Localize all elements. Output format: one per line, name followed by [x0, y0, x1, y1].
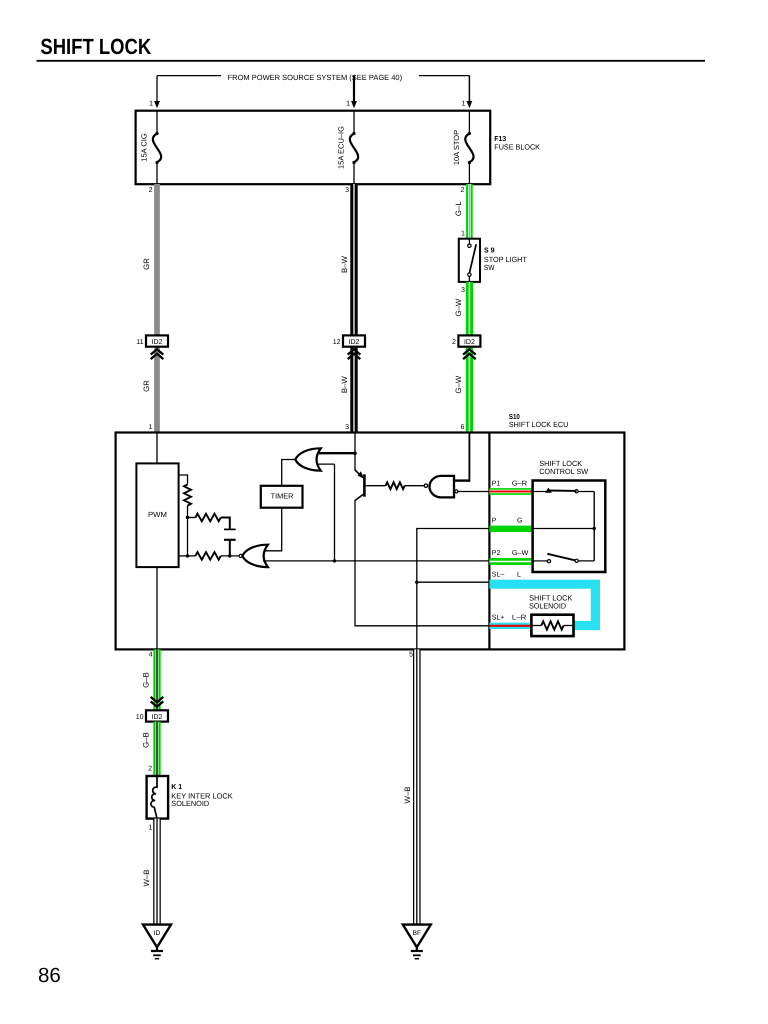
svg-text:11: 11 [136, 339, 143, 346]
svg-text:15A CIG: 15A CIG [140, 133, 149, 162]
svg-text:L: L [517, 571, 521, 578]
svg-text:G–L: G–L [454, 201, 463, 216]
S9 switch contacts and blade [468, 239, 470, 244]
stop light switch S9 box [459, 239, 480, 282]
wire resistor to NAND output [405, 485, 425, 487]
svg-text:86: 86 [38, 964, 61, 987]
wire capacitor to row2 [229, 540, 231, 556]
svg-text:1: 1 [461, 231, 465, 238]
svg-text:12: 12 [333, 339, 341, 346]
svg-text:SW: SW [484, 263, 495, 272]
op-amp gate: OR gate (lower, output to PWM network) [239, 554, 242, 557]
op-amp gate: OR gate (upper, drives TIMER) [295, 448, 321, 470]
wire B-W from ID2 to ECU pin 3 [350, 347, 357, 433]
wire row1 junction to resistor [188, 517, 196, 519]
svg-text:G–W: G–W [454, 375, 463, 393]
wire arrow from power source [156, 76, 158, 103]
control sw common line [533, 528, 595, 530]
svg-text:PWM: PWM [148, 510, 167, 519]
svg-text:TIMER: TIMER [271, 492, 294, 501]
control sw P2 contact [533, 560, 548, 562]
chevron arrows (G-W) [463, 349, 476, 354]
wire SL- row inside ECU [417, 581, 490, 583]
svg-text:S 9: S 9 [484, 246, 495, 255]
resistor (solenoid coil) [531, 625, 541, 627]
svg-text:15A ECU–IG: 15A ECU–IG [337, 126, 346, 169]
svg-text:1: 1 [149, 824, 153, 831]
wire B-W inside ECU [354, 433, 356, 471]
svg-text:6: 6 [460, 424, 464, 431]
key interlock solenoid K1 box [147, 776, 169, 819]
chevron arrows (GR) [151, 349, 164, 354]
resistor (vertical, PWM network) [184, 485, 191, 506]
connector ID2 pin 2 [458, 335, 480, 346]
svg-text:B–W: B–W [340, 255, 349, 273]
svg-text:G–W: G–W [512, 550, 529, 557]
wire GR from ID2 to ECU pin 1 [154, 347, 160, 433]
svg-text:ID2: ID2 [349, 339, 360, 346]
wire G-B from ECU pin 4 to ID2 [153, 649, 160, 710]
shift lock ECU S10 box [116, 433, 625, 650]
wire TIMER to OR gate input [264, 508, 282, 551]
svg-text:ID: ID [154, 930, 161, 937]
svg-text:10: 10 [136, 714, 144, 721]
svg-text:3: 3 [345, 187, 349, 194]
solenoid coil [151, 776, 157, 819]
wire OR gate (upper) output to TIMER [282, 460, 296, 486]
wire NAND lower input to P1 row [458, 491, 489, 493]
svg-text:FUSE BLOCK: FUSE BLOCK [494, 142, 540, 151]
svg-text:FROM POWER SOURCE SYSTEM (SEE: FROM POWER SOURCE SYSTEM (SEE PAGE 40) [228, 73, 403, 82]
svg-text:P: P [492, 517, 497, 524]
wire transistor emitter to SL+ row [355, 500, 489, 626]
wire G-B from ID2 to K1 [153, 722, 160, 776]
resistor (row2) [195, 552, 220, 560]
svg-text:G–B: G–B [142, 732, 151, 748]
fuse 15A ECU–IG [353, 111, 355, 132]
logic gate: NAND (points left) [424, 484, 427, 487]
chevron arrows (B-W) [348, 349, 361, 354]
wire OR gate lower input to P2 line [263, 560, 489, 562]
svg-text:2: 2 [452, 339, 456, 346]
svg-text:SHIFT LOCK ECU: SHIFT LOCK ECU [509, 420, 568, 429]
fuse 15A CIG [156, 111, 158, 132]
node junction (row2) [186, 554, 189, 557]
shift lock solenoid box [531, 615, 573, 636]
wire resistor to junctions [187, 506, 189, 556]
svg-text:W–B: W–B [142, 870, 151, 887]
wire arrow from power source [468, 76, 470, 103]
capacitor plates [224, 528, 236, 530]
connector ID2 pin 12 [343, 335, 365, 346]
PWM box [136, 463, 178, 567]
wire transistor base [366, 485, 386, 487]
svg-text:SHIFT LOCK: SHIFT LOCK [40, 34, 151, 59]
wire W-B from K1 to ground [153, 819, 161, 924]
wire PWM to resistor network [179, 475, 188, 485]
svg-text:SL–: SL– [492, 571, 505, 578]
connector ID2 pin 11 [146, 335, 168, 346]
wire G-L from fuse block to stop light switch [466, 184, 473, 239]
svg-text:2: 2 [460, 187, 464, 194]
connector ID2 pin 10 [146, 710, 168, 721]
resistor (base) [386, 482, 405, 489]
svg-text:ID2: ID2 [152, 339, 163, 346]
wire G (P row) [489, 526, 532, 532]
wire B-W from fuse block to junction ID2 [350, 184, 357, 335]
node junction (row1) [186, 516, 189, 519]
wire G-R (P1 row) [489, 488, 532, 495]
svg-text:SOLENOID: SOLENOID [529, 602, 566, 611]
svg-text:ID2: ID2 [464, 339, 475, 346]
control sw P1 contact [533, 491, 546, 493]
control sw vertical link [593, 492, 595, 561]
wire P2 branch up to OR gate (upper) input [334, 464, 336, 561]
resistor (row1) [195, 514, 220, 522]
svg-text:1: 1 [346, 101, 350, 108]
svg-text:3: 3 [345, 424, 349, 431]
svg-text:1: 1 [149, 101, 153, 108]
wire G-W (P2 row) [489, 558, 532, 565]
svg-text:B–W: B–W [340, 376, 349, 394]
svg-text:G: G [517, 517, 522, 524]
power source bus wire [157, 75, 221, 77]
wire OR gate upper input to B-W line [318, 452, 356, 454]
ECU connector column line [488, 433, 490, 650]
svg-text:SL+: SL+ [492, 615, 505, 622]
wire G-W from stop light switch to junction ID2 [466, 282, 473, 336]
svg-text:10A STOP: 10A STOP [452, 130, 461, 165]
svg-text:2: 2 [149, 187, 153, 194]
svg-text:CONTROL SW: CONTROL SW [539, 467, 589, 476]
wire L-R (SL+ row) [489, 623, 531, 629]
svg-text:G–W: G–W [454, 298, 463, 316]
node junction (SL- / pin5 wire) [415, 581, 418, 584]
svg-text:P2: P2 [492, 550, 501, 557]
svg-text:G–R: G–R [512, 480, 527, 487]
fuse block F13 box [136, 111, 491, 185]
svg-text:GR: GR [142, 258, 151, 270]
ground ID [143, 925, 171, 948]
svg-text:2: 2 [148, 766, 152, 773]
ground BF [403, 925, 431, 948]
svg-text:1: 1 [149, 424, 153, 431]
timer box [261, 486, 303, 508]
svg-text:W–B: W–B [403, 787, 412, 804]
wire GR from fuse block to junction ID2 [154, 184, 160, 335]
wire resistor to capacitor [221, 518, 230, 529]
transistor Q1 [363, 474, 366, 496]
svg-text:BF: BF [413, 930, 422, 937]
svg-text:SOLENOID: SOLENOID [171, 799, 209, 808]
chevron arrows (G-B, down) [151, 697, 164, 702]
svg-text:1: 1 [461, 101, 465, 108]
wire PWM to row2 junction [179, 555, 188, 557]
wire PWM bottom to ECU pin 4 [156, 567, 158, 649]
NAND lower input bubble [455, 490, 458, 493]
shift lock control switch box [533, 481, 606, 573]
wire (GR continues inside ECU) [156, 433, 158, 464]
svg-text:K 1: K 1 [171, 782, 182, 791]
wire arrow from power source [353, 76, 355, 103]
wire L (SL- row, solenoid loop, cyan) [489, 584, 595, 625]
node junction (cap/row2) [228, 554, 231, 557]
svg-text:L–R: L–R [512, 615, 527, 622]
header rule [37, 60, 706, 62]
svg-text:4: 4 [149, 652, 153, 659]
node junction (B-W / OR input) [353, 451, 357, 455]
svg-text:G–B: G–B [142, 672, 151, 688]
svg-text:3: 3 [461, 287, 465, 294]
wire G-W from ID2 to ECU pin 6 [466, 347, 473, 433]
svg-text:P1: P1 [492, 480, 501, 487]
svg-text:ID2: ID2 [152, 714, 163, 721]
svg-text:5: 5 [409, 652, 413, 659]
wire row2 [188, 555, 196, 557]
svg-text:GR: GR [142, 380, 151, 392]
wire W-B from ECU pin 5 to ground [413, 649, 421, 924]
wire P row inside ECU [417, 529, 490, 650]
wire NAND upper input from G-W pin 6 [454, 479, 469, 481]
node junction (P2 branch) [333, 559, 336, 562]
fuse 10A STOP [468, 111, 470, 132]
